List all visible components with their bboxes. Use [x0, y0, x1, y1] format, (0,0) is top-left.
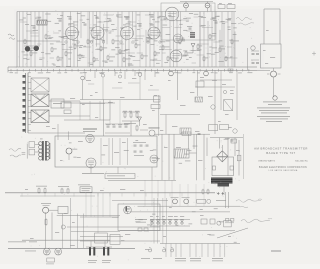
svg-text:BAUER TYPE 707: BAUER TYPE 707 [266, 151, 295, 155]
svg-text:540-1600 KC: 540-1600 KC [295, 160, 308, 162]
svg-text:LOS GATOS CALIFORNIA: LOS GATOS CALIFORNIA [269, 169, 298, 172]
svg-text:ONE/250 WATTS: ONE/250 WATTS [258, 159, 276, 162]
svg-text:BAUER ELECTRONIC CORPORATION: BAUER ELECTRONIC CORPORATION [259, 166, 307, 169]
svg-text:AM BROADCAST TRANSMITTER: AM BROADCAST TRANSMITTER [254, 146, 308, 150]
